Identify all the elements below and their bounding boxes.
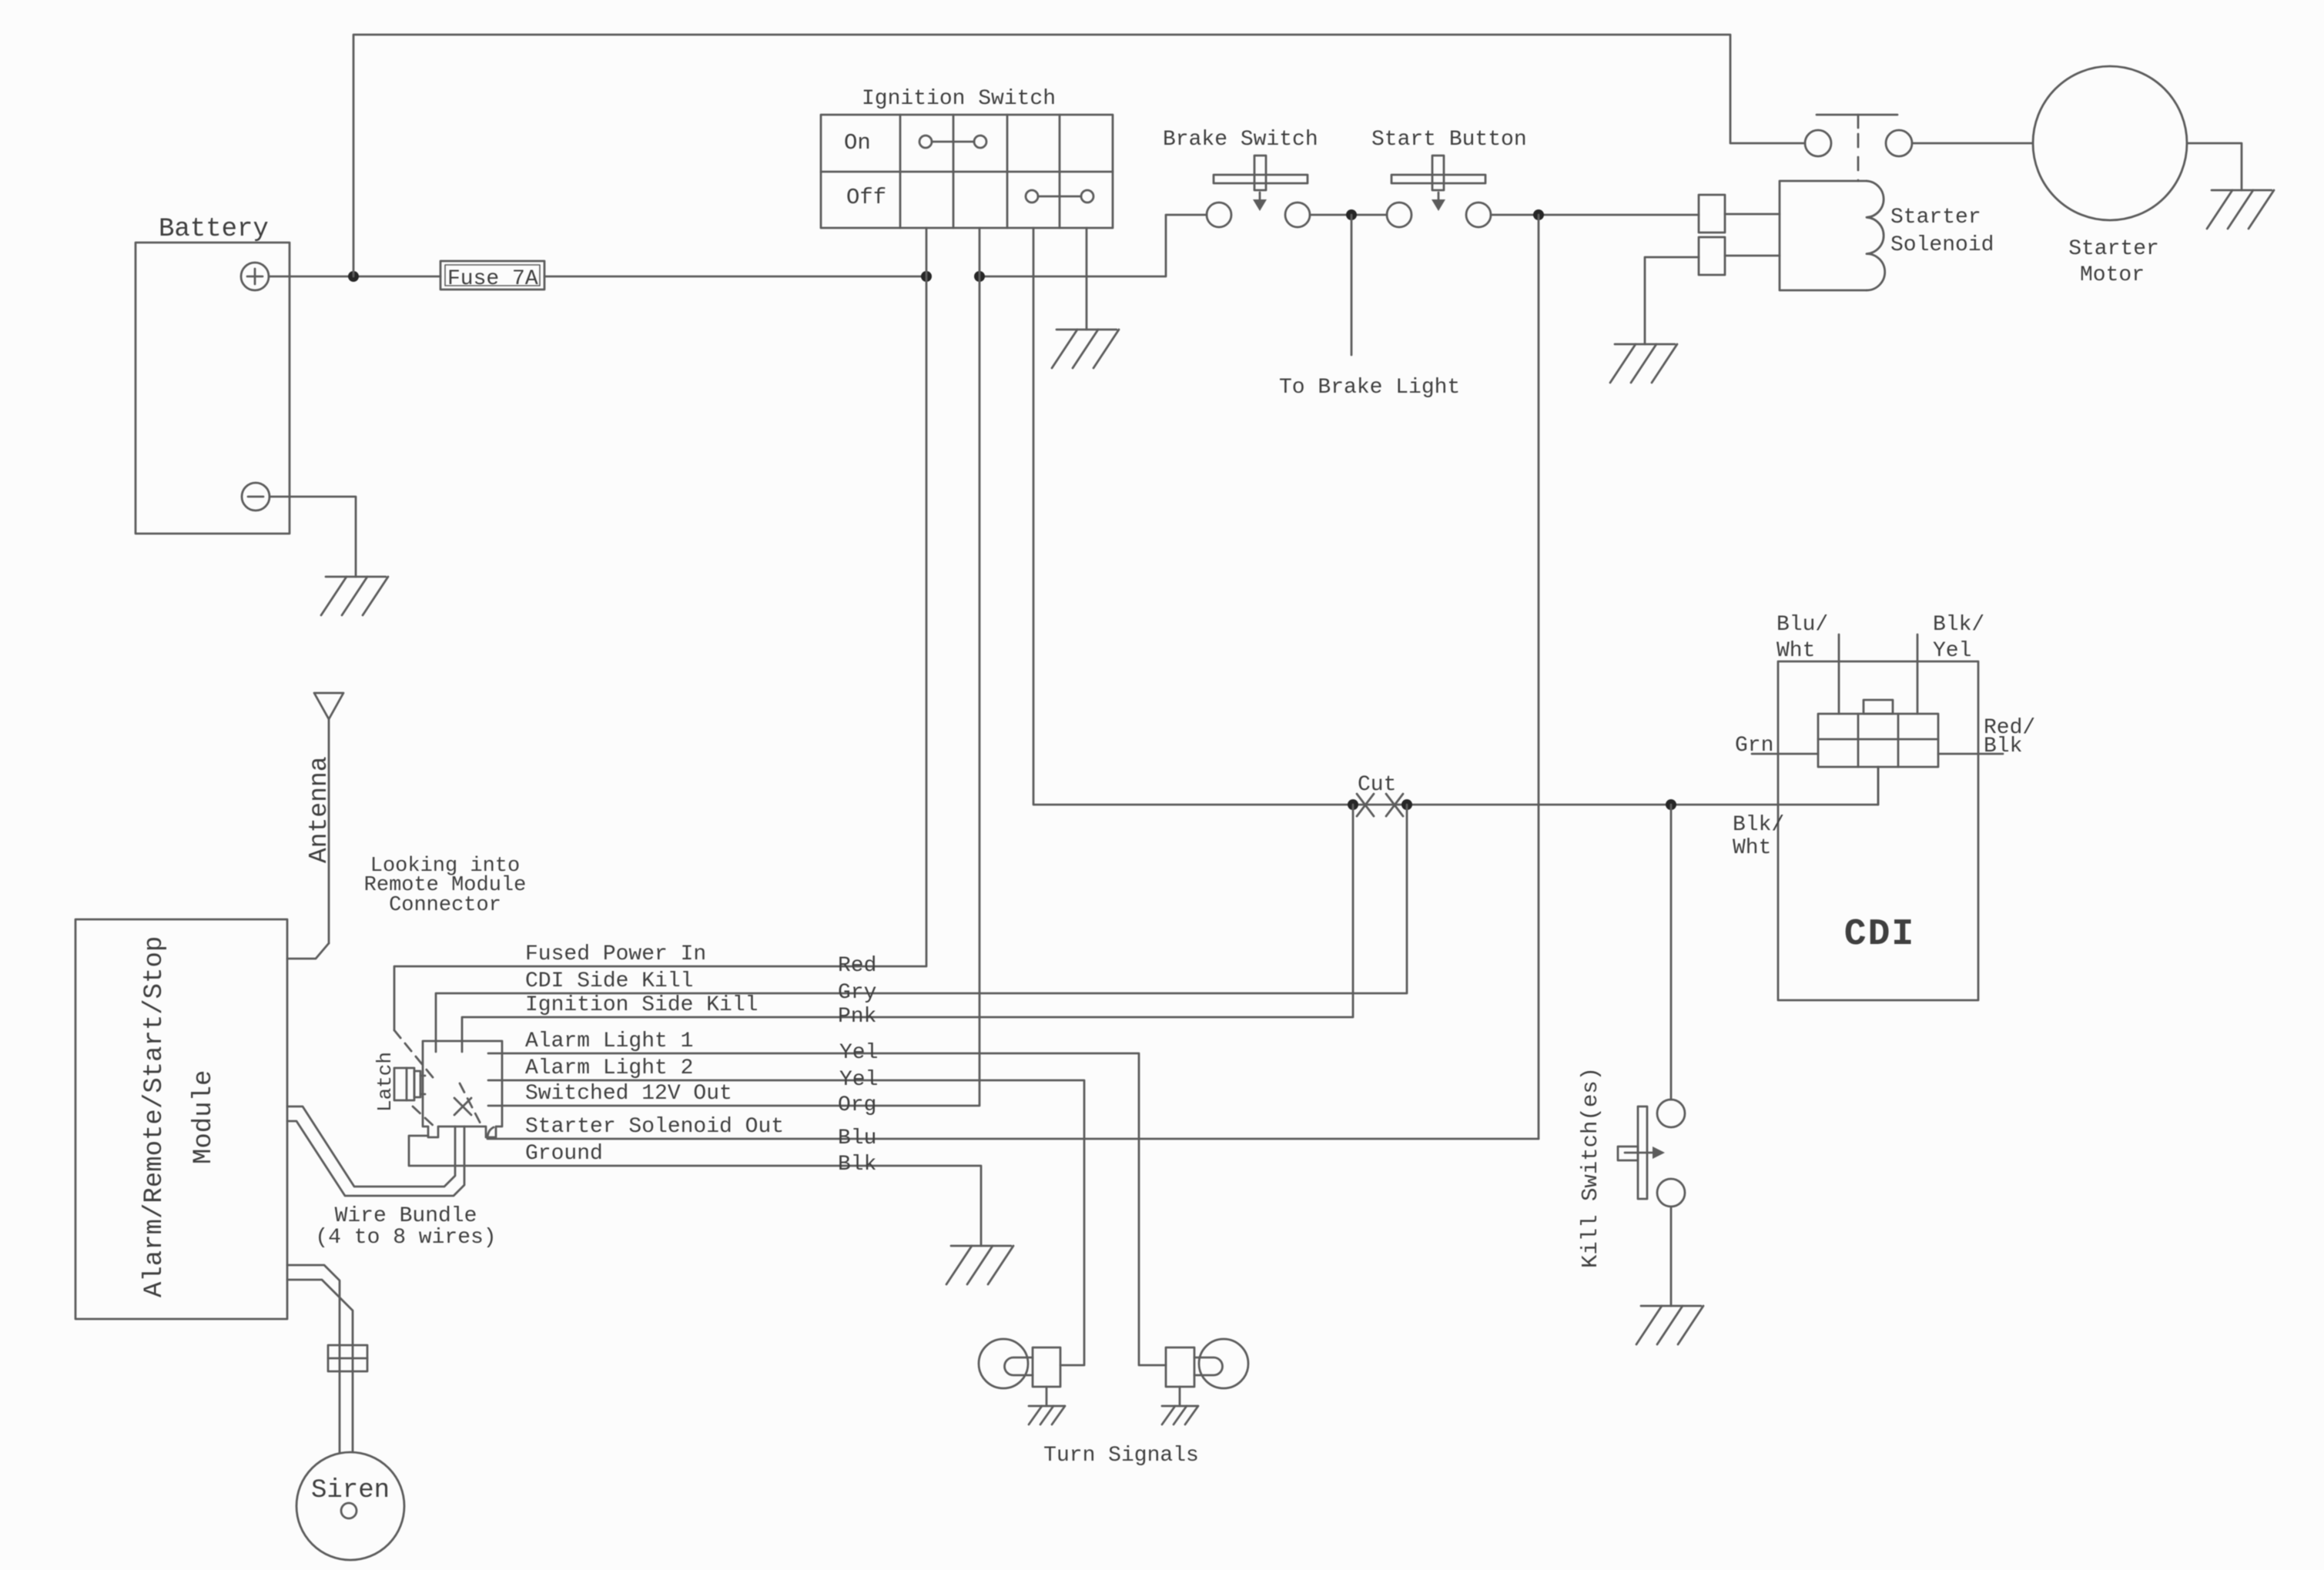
svg-text:Grn: Grn xyxy=(1735,734,1773,758)
relay actuator bar xyxy=(1817,115,1897,128)
svg-text:Wire Bundle: Wire Bundle xyxy=(335,1204,477,1228)
wire motor to ground xyxy=(2187,143,2242,190)
svg-text:Blk/: Blk/ xyxy=(1733,813,1784,837)
fuse F1 7A xyxy=(440,261,544,291)
wire tap to kill switch xyxy=(1670,805,1673,1100)
svg-text:Cut: Cut xyxy=(1358,773,1396,797)
cut mark X2 xyxy=(1386,794,1403,816)
wire start btn to solenoid connector xyxy=(1491,214,1699,216)
connector key dash 2 xyxy=(413,1106,435,1127)
svg-text:Kill Switch(es): Kill Switch(es) xyxy=(1578,1067,1603,1268)
wire solenoid feed drop xyxy=(1538,215,1540,1139)
start button SW-START xyxy=(1371,128,1527,227)
alarm module U1 xyxy=(75,919,287,1319)
ignition Off contact xyxy=(1026,190,1093,203)
wire kill switch to ground xyxy=(1670,1207,1673,1306)
svg-text:Blk/: Blk/ xyxy=(1933,613,1984,637)
ground solenoid xyxy=(1615,343,1675,346)
wire module to siren B xyxy=(287,1280,353,1452)
node ignition terminal B2 xyxy=(974,271,985,282)
svg-text:Siren: Siren xyxy=(311,1476,390,1505)
wire Ground Blk xyxy=(409,1136,981,1246)
svg-text:Wht: Wht xyxy=(1733,836,1771,860)
connector solenoid pin1 xyxy=(1699,195,1725,233)
wire ignition stub2 to brake switch xyxy=(979,215,1207,276)
wire module to siren A xyxy=(287,1265,340,1452)
connector key dash 1 xyxy=(394,1030,436,1081)
siren connector xyxy=(328,1345,367,1371)
svg-text:Battery: Battery xyxy=(159,215,269,244)
node cut right xyxy=(1401,799,1412,810)
CDI pin Blk/Wht xyxy=(1733,767,1878,860)
wire Alarm Light 1 Yel xyxy=(488,1029,1166,1365)
node starter solenoid feed xyxy=(1533,209,1544,220)
wire to brake light xyxy=(1351,215,1353,355)
wire Ignition Side Kill Pnk xyxy=(462,805,1353,1052)
node ignition terminal B1 xyxy=(921,271,932,282)
svg-text:Brake Switch: Brake Switch xyxy=(1163,128,1318,152)
svg-text:Yel: Yel xyxy=(839,1041,878,1065)
svg-text:Off: Off xyxy=(846,185,886,210)
svg-text:Connector: Connector xyxy=(389,894,501,917)
svg-text:CDI: CDI xyxy=(1844,914,1915,956)
svg-text:Module: Module xyxy=(189,1070,219,1164)
svg-text:Ignition Switch: Ignition Switch xyxy=(862,87,1056,111)
svg-text:On: On xyxy=(844,130,871,156)
turn signal bulb right xyxy=(1166,1339,1248,1406)
relay contact right xyxy=(1886,130,1912,156)
ground Blk wire xyxy=(951,1245,1011,1247)
wire Switched 12V Out Org xyxy=(488,228,979,1117)
CDI pin Red/Blk xyxy=(1938,716,2035,758)
kill switch SW-KILL xyxy=(1578,1067,1685,1268)
svg-text:Start Button: Start Button xyxy=(1371,128,1527,152)
relay contact left xyxy=(1805,130,1831,156)
svg-text:Ignition Side Kill: Ignition Side Kill xyxy=(525,993,758,1017)
svg-text:Yel: Yel xyxy=(1933,639,1971,663)
ignition On contact xyxy=(919,136,986,148)
battery + terminal xyxy=(241,263,269,290)
svg-text:Blu: Blu xyxy=(838,1126,876,1150)
svg-text:Latch: Latch xyxy=(373,1052,397,1112)
node brake light tap xyxy=(1346,209,1357,220)
svg-text:Starter: Starter xyxy=(2068,237,2159,261)
svg-text:Motor: Motor xyxy=(2080,263,2145,287)
starter motor M1 xyxy=(2033,66,2187,287)
svg-text:Yel: Yel xyxy=(839,1068,878,1092)
wire battery- to ground xyxy=(270,497,356,577)
wire ignition terminal 4 to ground xyxy=(1086,228,1088,330)
CDI pin Blu/Wht xyxy=(1776,613,1839,714)
svg-text:Switched 12V Out: Switched 12V Out xyxy=(525,1082,732,1106)
svg-text:To Brake Light: To Brake Light xyxy=(1279,376,1460,400)
ground starter motor xyxy=(2212,189,2272,192)
node cut left xyxy=(1348,799,1358,810)
node kill switch tap xyxy=(1666,799,1676,810)
wire bundle inner xyxy=(287,1121,464,1196)
svg-text:Blu/: Blu/ xyxy=(1776,613,1828,637)
wire battery+ to fuse xyxy=(269,276,440,278)
label wire bundle xyxy=(315,1204,496,1250)
starter solenoid coil K1 xyxy=(1780,181,1994,290)
svg-text:Starter Solenoid Out: Starter Solenoid Out xyxy=(525,1115,784,1139)
wire Alarm Light 2 Yel xyxy=(488,1056,1084,1365)
turn signal bulb left xyxy=(979,1339,1060,1406)
svg-text:Solenoid: Solenoid xyxy=(1890,233,1994,257)
siren SP1 xyxy=(296,1452,404,1560)
CDI connector xyxy=(1818,700,1938,767)
svg-text:Starter: Starter xyxy=(1890,206,1981,229)
relay actuator link dashed xyxy=(1857,134,1860,181)
connector key dash 3 xyxy=(460,1083,483,1128)
wire Starter Solenoid Out Blu xyxy=(487,1115,1539,1150)
latch xyxy=(373,1052,425,1112)
connector key x xyxy=(454,1098,471,1115)
wire riser to top bus xyxy=(353,35,1805,276)
svg-text:Wht: Wht xyxy=(1776,639,1815,663)
svg-text:Pnk: Pnk xyxy=(838,1005,876,1029)
CDI box U2 xyxy=(1778,661,1978,1000)
ground kill switch xyxy=(1641,1305,1701,1307)
ground battery xyxy=(326,576,386,578)
wire ignition terminal3 kill xyxy=(1033,228,1878,805)
connector solenoid pin2 xyxy=(1699,237,1725,275)
wire pin1 to coil xyxy=(1725,213,1780,216)
wire Fused Power In Red xyxy=(394,228,926,1030)
wire fuse to ignition stub1 xyxy=(544,276,926,278)
wire relay to starter motor xyxy=(1912,142,2033,145)
wire CDI Side Kill Gry xyxy=(436,805,1407,1052)
ground turn signal right xyxy=(1162,1405,1197,1408)
wire pin2 to coil xyxy=(1725,255,1780,257)
node battery+ junction xyxy=(348,271,359,282)
svg-text:Fused Power In: Fused Power In xyxy=(525,942,706,966)
ground turn signal left xyxy=(1029,1405,1064,1408)
svg-text:Alarm Light 2: Alarm Light 2 xyxy=(525,1056,693,1080)
battery box xyxy=(136,215,290,534)
ground ignition switch xyxy=(1057,329,1117,331)
wire bundle outer xyxy=(287,1106,455,1187)
battery - terminal xyxy=(242,483,270,511)
remote module connector J1 xyxy=(423,1041,502,1137)
wire pin2 to ground xyxy=(1645,257,1699,344)
label looking into connector xyxy=(364,855,527,917)
svg-text:Red: Red xyxy=(838,954,876,978)
svg-text:CDI Side Kill: CDI Side Kill xyxy=(525,969,693,993)
svg-text:Org: Org xyxy=(838,1093,876,1117)
brake switch SW-BRK xyxy=(1163,128,1318,227)
CDI pin Blk/Yel xyxy=(1917,613,1984,714)
svg-text:Ground: Ground xyxy=(525,1142,603,1166)
antenna ANT1 xyxy=(287,693,343,959)
svg-text:(4 to 8 wires): (4 to 8 wires) xyxy=(315,1226,496,1250)
svg-text:Blk: Blk xyxy=(1984,735,2022,758)
svg-text:Alarm Light 1: Alarm Light 1 xyxy=(525,1029,693,1053)
cut mark X1 xyxy=(1357,794,1374,816)
svg-text:Fuse 7A: Fuse 7A xyxy=(447,267,538,291)
wire brake sw to start btn xyxy=(1310,214,1387,216)
svg-text:Alarm/Remote/Start/Stop: Alarm/Remote/Start/Stop xyxy=(140,936,169,1297)
svg-text:Turn Signals: Turn Signals xyxy=(1043,1444,1199,1468)
ignition switch S1 xyxy=(821,87,1113,228)
svg-text:Gry: Gry xyxy=(838,981,876,1005)
svg-text:Antenna: Antenna xyxy=(305,756,333,863)
svg-text:Blk: Blk xyxy=(838,1153,876,1177)
CDI pin Grn xyxy=(1735,734,1818,758)
